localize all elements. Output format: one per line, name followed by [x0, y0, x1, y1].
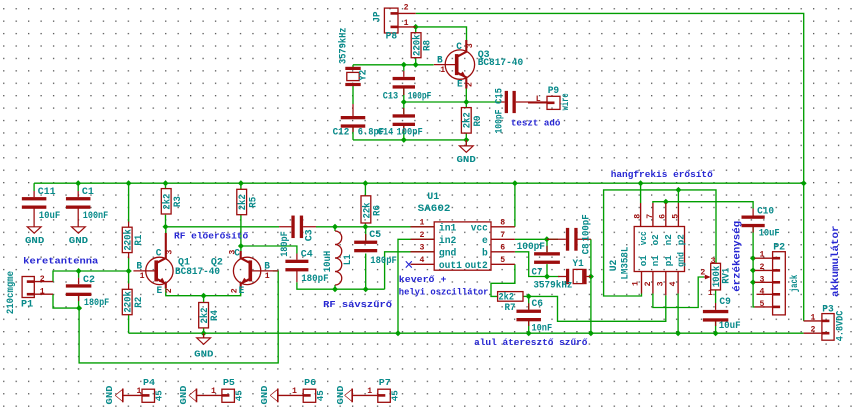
svg-text:vcc: vcc	[471, 223, 488, 234]
svg-text:C4: C4	[301, 249, 313, 260]
svg-text:4.8VDC: 4.8VDC	[836, 311, 847, 342]
svg-text:3: 3	[711, 257, 716, 266]
junction rail R3	[163, 180, 169, 186]
svg-text:P3: P3	[822, 305, 834, 316]
capacitor C2	[66, 278, 92, 301]
wire R5 bottom to Q2 collector node	[240, 215, 242, 251]
svg-text:180pF: 180pF	[370, 256, 397, 267]
svg-text:érzékenység: érzékenység	[731, 221, 743, 292]
resistor R9	[461, 108, 471, 134]
wire Y2 bottom to C12	[352, 83, 354, 104]
svg-text:GND: GND	[105, 385, 115, 405]
svg-text:alul áteresztő szűrő: alul áteresztő szűrő	[474, 337, 588, 348]
U2 pin 8 vcc stub	[640, 203, 642, 227]
wire R3 bottom to node	[165, 215, 167, 227]
svg-text:100k: 100k	[711, 266, 723, 288]
svg-text:C9: C9	[719, 297, 731, 308]
svg-text:2: 2	[644, 281, 653, 286]
connector P4	[142, 389, 155, 402]
P2 pin 5 line	[755, 306, 773, 308]
wire R5 top stub	[240, 183, 242, 189]
svg-text:1: 1	[137, 387, 142, 396]
junction JP pin1/R8	[413, 24, 419, 30]
svg-text:R6: R6	[373, 205, 384, 216]
svg-text:2: 2	[165, 288, 174, 293]
U2 pin 4 gnd stub	[677, 272, 679, 294]
wire R1 top stub	[128, 183, 130, 222]
svg-text:E: E	[457, 80, 463, 91]
wire L1 bottom stub	[334, 285, 336, 289]
svg-text:akkumulátor: akkumulátor	[830, 226, 842, 298]
svg-text:GND: GND	[194, 350, 214, 360]
wire U1 pin8 vcc up to rail	[514, 183, 516, 227]
svg-text:2: 2	[420, 231, 425, 240]
svg-text:8: 8	[634, 214, 643, 219]
wire R7 right to C6 node	[523, 295, 529, 297]
svg-text:gnd: gnd	[439, 247, 457, 259]
wire U1 pin2 in2 to GND rail	[398, 239, 434, 333]
wire R3 top stub	[165, 183, 167, 188]
capacitor C13	[393, 71, 415, 95]
ground under R9	[459, 146, 473, 152]
R9 GND stub	[465, 140, 467, 146]
svg-text:vcc: vcc	[639, 231, 649, 245]
transistor Q3 BC817-40	[434, 40, 475, 89]
ground arrow for P7	[345, 389, 353, 403]
svg-text:B: B	[437, 55, 443, 66]
wire Q1 collector stub	[165, 227, 167, 233]
svg-text:out2: out2	[465, 261, 488, 272]
svg-text:7: 7	[646, 214, 655, 219]
svg-text:n2: n2	[664, 234, 674, 245]
svg-text:teszt adó: teszt adó	[511, 118, 561, 129]
wire P5 pin 1	[197, 394, 222, 396]
svg-text:P7: P7	[379, 378, 391, 388]
svg-text:2k2: 2k2	[237, 194, 249, 210]
wire Q1 emitter to Q2 emitter with R4 tap	[166, 288, 241, 296]
wire R4 top stub	[203, 296, 205, 303]
junction Y2 line C13	[401, 62, 407, 68]
svg-text:JP: JP	[372, 12, 383, 23]
R4 GND stub	[203, 333, 205, 338]
svg-text:P1: P1	[21, 299, 33, 310]
svg-text:GND: GND	[25, 236, 45, 246]
junction base node R1/R2	[126, 268, 132, 274]
wire C3 right to U1 pin1	[316, 226, 434, 228]
svg-text:C2: C2	[83, 275, 95, 286]
P2 pin 3 line	[755, 281, 773, 283]
wire C6 node to U2 pin3	[529, 295, 666, 321]
resistor R5	[237, 189, 247, 214]
svg-text:220k: 220k	[123, 291, 135, 313]
svg-text:C: C	[156, 249, 162, 260]
wire C14 top stub	[403, 102, 405, 114]
svg-text:45: 45	[390, 390, 400, 401]
junction rail R6	[362, 180, 368, 186]
svg-text:100nF: 100nF	[83, 211, 108, 222]
junction rail U1 vcc	[512, 180, 518, 186]
svg-text:C3: C3	[304, 229, 315, 241]
capacitor C14	[393, 108, 415, 132]
svg-text:100pF: 100pF	[581, 214, 592, 241]
wire Q2 collector node to C4	[241, 246, 297, 254]
connector P2 jack	[773, 252, 786, 315]
junction rail R5	[238, 180, 244, 186]
P9 pin line	[528, 102, 547, 104]
svg-text:C11: C11	[38, 187, 56, 198]
junction GND rail R4	[201, 330, 207, 336]
svg-text:GND: GND	[336, 385, 346, 405]
svg-text:P2: P2	[773, 243, 785, 254]
svg-text:45: 45	[155, 390, 165, 401]
svg-text:1: 1	[811, 314, 816, 323]
wire C5 bottom stub	[365, 254, 367, 290]
junction GND rail C8/Y1	[588, 330, 594, 336]
junction C2 bottom P1	[76, 305, 82, 311]
resistor R4	[199, 303, 209, 328]
capacitor C12	[341, 104, 366, 132]
svg-text:Y1: Y1	[573, 259, 584, 270]
svg-text:2: 2	[404, 4, 409, 13]
svg-text:BC817-40: BC817-40	[478, 58, 524, 69]
svg-text:B: B	[136, 262, 142, 273]
wire C12 bottom stub	[352, 125, 354, 140]
wire U2 pin5 stub up to line B	[677, 190, 679, 203]
junction C7 bottom	[544, 274, 550, 280]
P2 pin 4 line	[757, 293, 773, 295]
svg-text:10uF: 10uF	[719, 321, 741, 332]
svg-text:C1: C1	[82, 187, 94, 198]
connector P7	[378, 389, 391, 402]
inductor L1	[335, 231, 342, 285]
svg-text:210cmgme: 210cmgme	[6, 271, 17, 314]
wire R4 bottom stub	[203, 328, 205, 333]
svg-text:R9: R9	[473, 116, 484, 127]
svg-text:gnd: gnd	[677, 252, 687, 267]
svg-text:RF sávszűrő: RF sávszűrő	[323, 299, 392, 310]
junction rail right drop	[801, 180, 807, 186]
junction GND rail U2 pin4	[675, 330, 681, 336]
P3 pin 2 line	[804, 332, 822, 334]
wire JP pin1 node to R8	[415, 27, 417, 33]
wire VCC net from P8 pin2 across top and down right side to P3 pin1	[416, 13, 804, 321]
resistor R3	[161, 189, 171, 214]
junction rail C1	[75, 180, 81, 186]
svg-text:C10: C10	[757, 206, 774, 217]
ground arrow for P6	[270, 389, 278, 403]
U1 pin 1 in1	[411, 226, 435, 228]
wire P1 pin1 down to C2 bottom node	[53, 294, 79, 308]
svg-text:5: 5	[500, 256, 505, 265]
svg-text:R5: R5	[248, 197, 259, 208]
svg-text:in2: in2	[439, 235, 457, 247]
svg-text:5: 5	[671, 214, 680, 219]
capacitor C1	[66, 191, 91, 227]
U1 pin 5 out2	[491, 263, 515, 265]
svg-text:o2: o2	[651, 234, 661, 245]
svg-text:22k: 22k	[361, 203, 373, 219]
svg-text:45: 45	[235, 390, 245, 401]
svg-text:U1: U1	[427, 192, 439, 203]
svg-text:p1: p1	[664, 255, 674, 267]
svg-text:1: 1	[760, 251, 765, 260]
svg-text:4: 4	[420, 256, 425, 265]
wire C13 bottom stub	[403, 89, 405, 103]
junction R7/C6	[526, 293, 532, 299]
svg-text:in1: in1	[439, 222, 457, 234]
wire C11 stub from rail	[33, 183, 35, 191]
wire U2 pin4 gnd down to rail	[677, 294, 679, 334]
svg-text:GND: GND	[457, 155, 477, 165]
ground arrow for P4	[115, 389, 123, 403]
junction node R3/Q1C	[163, 224, 169, 230]
svg-text:100pF: 100pF	[397, 128, 423, 139]
wire P1 pin2 up to antenna node	[53, 271, 132, 282]
wire U2 pin2 to RV1 wiper	[653, 277, 704, 308]
svg-text:3579kHz: 3579kHz	[337, 28, 349, 65]
U2 pin 2 n1 stub	[652, 272, 654, 294]
svg-text:10uF: 10uF	[759, 229, 780, 240]
svg-text:1: 1	[404, 19, 409, 28]
wire bandpass bottom to U1 pin3 gnd	[385, 252, 435, 289]
wire C4 bottom to bandpass bottom node	[297, 282, 385, 289]
wire P4 pin 1	[123, 394, 142, 396]
wire C5 top stub	[365, 227, 367, 241]
svg-text:C12: C12	[333, 128, 350, 139]
svg-text:BC817-40: BC817-40	[175, 267, 220, 278]
svg-text:10nF: 10nF	[532, 323, 553, 334]
svg-text:1: 1	[211, 387, 216, 396]
junction line B U2 pin5	[675, 187, 681, 193]
svg-text:jack: jack	[789, 275, 801, 293]
wire U2 pin1 loop to line B and RV1 pin3	[604, 190, 716, 296]
svg-text:6: 6	[500, 244, 505, 253]
svg-text:p2: p2	[677, 234, 687, 245]
op-amp U2 LM358 box	[634, 227, 684, 272]
connector P6	[303, 389, 316, 402]
svg-text:220k: 220k	[123, 229, 135, 251]
U2 pin 5 p2 stub	[677, 203, 679, 227]
junction P2 pin3	[750, 279, 756, 285]
svg-text:L1: L1	[343, 254, 354, 265]
svg-text:GND: GND	[69, 236, 89, 246]
P8 pin 1 line	[398, 26, 416, 28]
svg-text:1: 1	[140, 272, 145, 281]
junction R9 bottom GND	[463, 137, 469, 143]
svg-text:P9: P9	[548, 86, 560, 97]
svg-text:e: e	[482, 236, 488, 247]
junction GND rail C9	[713, 330, 719, 336]
wire C12-C14 bottom line to R9 GND	[353, 139, 466, 141]
P2 pin 2 line	[755, 269, 773, 271]
capacitor C6	[516, 303, 541, 326]
svg-text:C7: C7	[532, 268, 543, 279]
svg-text:n1: n1	[651, 255, 661, 267]
U2 pin 3 p1 stub	[665, 272, 667, 296]
U2 pin 1 o1 stub	[641, 272, 643, 294]
junction L1 bottom	[332, 286, 338, 292]
junction Y2 line R8	[413, 62, 419, 68]
U1 pin 4 out1	[411, 263, 435, 265]
wire C10 bottom to P2 pins	[753, 227, 754, 307]
junction P2 pin2	[750, 267, 756, 273]
svg-text:P6: P6	[304, 378, 316, 388]
wire C6 bottom stub	[528, 320, 530, 333]
op-amp U1 SA602 box	[434, 222, 491, 270]
wire C13 top stub	[403, 65, 405, 71]
svg-text:1: 1	[440, 66, 445, 75]
svg-text:4: 4	[669, 281, 678, 286]
junction base node C2	[76, 268, 82, 274]
U1 pin 3 gnd	[411, 251, 435, 253]
connector P1 antenna	[22, 277, 34, 298]
svg-text:2: 2	[811, 326, 816, 335]
wire node line Q1C to U1 in1	[166, 226, 280, 228]
svg-text:2: 2	[40, 275, 45, 284]
svg-text:2k2: 2k2	[462, 112, 474, 128]
svg-text:2k2: 2k2	[499, 291, 515, 303]
wire C8 right down to GND rail	[590, 239, 592, 333]
connector P3 battery	[822, 314, 834, 341]
wire RV1 pin1 to C9	[715, 290, 717, 303]
svg-text:2k2: 2k2	[199, 308, 211, 324]
svg-text:C: C	[456, 42, 462, 53]
wire P6 pin 1	[278, 394, 303, 396]
connector P8 jumper	[384, 8, 398, 33]
svg-text:1: 1	[420, 219, 425, 228]
svg-text:helyi oszcillátor: helyi oszcillátor	[399, 286, 489, 297]
svg-text:b: b	[482, 247, 488, 259]
svg-text:3: 3	[466, 43, 475, 48]
svg-text:3: 3	[229, 250, 238, 255]
svg-text:keretantenna: keretantenna	[23, 256, 98, 267]
junction GND rail C6	[526, 330, 532, 336]
svg-text:L: L	[536, 95, 541, 104]
svg-text:R1: R1	[134, 235, 145, 246]
junction rail R1	[126, 180, 132, 186]
wire U1 pin5 out2 to R7	[491, 264, 515, 296]
svg-text:3: 3	[165, 250, 174, 255]
svg-text:RF előerősítő: RF előerősítő	[174, 230, 248, 241]
junction L1 top	[332, 224, 338, 230]
svg-text:Y2: Y2	[359, 70, 370, 81]
connector P5	[222, 389, 235, 402]
U2 pin 6 n2 stub	[665, 203, 667, 227]
junction Q2 collector	[238, 243, 244, 249]
wire U1 pin7 to C7/C8 node	[515, 238, 558, 240]
wire JP pin1 node to Q3 collector	[416, 27, 467, 42]
wire VCC top rail	[34, 182, 804, 184]
RV1 wiper arrow	[704, 275, 711, 280]
U1 pin 2 in2	[411, 238, 435, 240]
capacitor C7	[534, 246, 560, 264]
svg-text:2: 2	[760, 263, 765, 272]
ground under C11	[27, 227, 41, 233]
svg-text:hangfrekis erősítő: hangfrekis erősítő	[611, 169, 713, 180]
wire R6 top stub	[364, 183, 366, 196]
U2 pin 7 o2 stub	[652, 203, 654, 227]
svg-text:4: 4	[760, 288, 765, 297]
resistor R8	[411, 33, 421, 58]
svg-text:E: E	[157, 286, 163, 297]
wire C14 bottom stub	[403, 126, 405, 140]
ground under C1	[72, 227, 86, 233]
wire C1 stub from rail	[77, 183, 79, 191]
svg-text:R3: R3	[173, 196, 184, 207]
U1 pin 6 b	[491, 251, 515, 253]
wire R1 bottom to base node	[128, 258, 130, 271]
U1 pin4 unconnected cross	[406, 261, 412, 267]
svg-text:GND: GND	[260, 385, 270, 405]
svg-text:C13: C13	[383, 91, 399, 102]
svg-text:C14: C14	[378, 128, 394, 139]
svg-text:R7: R7	[505, 303, 516, 314]
svg-text:keverő +: keverő +	[399, 274, 447, 285]
svg-text:C8: C8	[581, 243, 592, 254]
svg-text:220k: 220k	[412, 35, 424, 57]
svg-text:8: 8	[500, 219, 505, 228]
wire C7 bottom stub	[546, 264, 548, 276]
capacitor C3	[279, 216, 316, 239]
wire line D pin7-pin6-C10	[653, 202, 753, 209]
svg-text:6: 6	[659, 214, 668, 219]
svg-text:7: 7	[500, 231, 505, 240]
svg-text:1: 1	[292, 387, 297, 396]
svg-text:out1: out1	[439, 261, 462, 272]
wire R2 bottom to GND rail corner	[128, 314, 130, 333]
wire R2 top from base node	[128, 271, 130, 284]
wire C6 top stub	[528, 296, 530, 309]
junction line D U2 pin6	[663, 199, 669, 205]
svg-text:R4: R4	[210, 310, 221, 321]
crystal Y1	[558, 269, 591, 284]
capacitor C5	[354, 234, 377, 252]
connector P9 test output	[547, 96, 560, 109]
svg-text:180pF: 180pF	[84, 298, 109, 309]
junction C14 bottom	[401, 137, 407, 143]
wire P7 pin 1	[352, 394, 378, 396]
svg-text:3: 3	[760, 275, 765, 284]
capacitor C4	[285, 254, 308, 283]
svg-text:B: B	[264, 262, 270, 273]
svg-text:10uF: 10uF	[39, 211, 61, 222]
svg-text:C15: C15	[495, 88, 506, 104]
junction U1 pin7 C7/C8	[544, 236, 550, 242]
wire R8 bottom stub	[415, 58, 417, 65]
svg-text:C5: C5	[369, 230, 381, 241]
wire R9 top stub	[465, 102, 467, 108]
svg-text:R8: R8	[423, 40, 434, 51]
svg-text:2: 2	[700, 269, 705, 278]
wire U2 pin6 stub to line D	[665, 202, 667, 203]
wire C2 bottom stub	[78, 294, 80, 308]
svg-text:100pF: 100pF	[408, 91, 432, 102]
junction C5 bottom	[363, 286, 369, 292]
svg-text:10uH: 10uH	[323, 251, 334, 273]
svg-text:1: 1	[265, 272, 270, 281]
wire antenna return to Q2 base	[79, 271, 278, 363]
svg-text:100pF: 100pF	[517, 242, 545, 253]
svg-text:C6: C6	[532, 299, 544, 310]
capacitor C11	[22, 191, 46, 227]
wire C7 top stub	[546, 239, 548, 252]
ground arrow for P5	[189, 389, 197, 403]
capacitor C10	[742, 209, 765, 233]
junction rail U2 vcc	[638, 180, 644, 186]
junction R6/C5	[362, 224, 368, 230]
capacitor C9	[703, 303, 728, 326]
svg-text:45: 45	[316, 390, 326, 401]
